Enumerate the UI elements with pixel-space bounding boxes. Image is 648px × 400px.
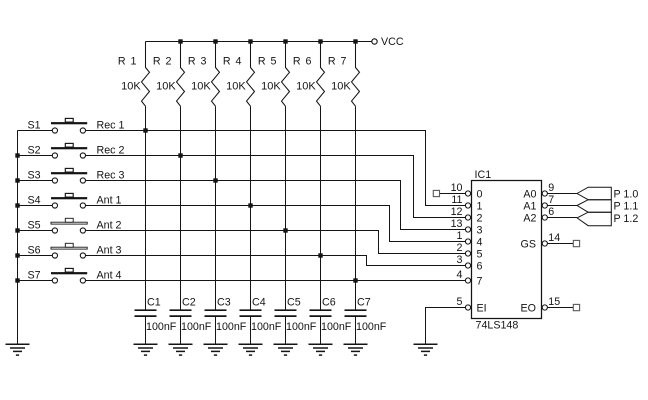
svg-text:6: 6 bbox=[548, 206, 554, 218]
capacitor C4 100nF bbox=[240, 297, 282, 334]
svg-text:2: 2 bbox=[457, 242, 463, 254]
ground under C6 bbox=[309, 344, 333, 355]
svg-text:10K: 10K bbox=[261, 81, 281, 93]
svg-text:100nF: 100nF bbox=[356, 321, 387, 333]
switch S2 (pushbutton) bbox=[28, 143, 88, 158]
wire bus to S4 bbox=[18, 205, 53, 207]
junction row S6 / column 6 bbox=[318, 253, 322, 257]
svg-text:C2: C2 bbox=[182, 297, 196, 309]
svg-text:14: 14 bbox=[548, 232, 560, 244]
junction top bus / column R5 bbox=[283, 39, 287, 43]
switch S3 (pushbutton) bbox=[28, 168, 88, 183]
IC1 output pin 6 (A2) bbox=[542, 206, 554, 220]
svg-text:3: 3 bbox=[477, 224, 483, 236]
svg-text:5: 5 bbox=[477, 248, 483, 260]
ground under C5 bbox=[274, 344, 298, 355]
junction left bus / switch S5 bbox=[15, 228, 19, 232]
wire bus to S3 bbox=[18, 180, 53, 182]
junction row S3 / column 3 bbox=[213, 178, 217, 182]
svg-text:R 2: R 2 bbox=[153, 56, 173, 68]
switch S1 (pushbutton) bbox=[28, 118, 88, 133]
svg-text:S7: S7 bbox=[28, 269, 41, 281]
resistor R6 10K bbox=[293, 42, 325, 107]
IC1 input pin 2 (input 5) bbox=[457, 242, 471, 256]
capacitor C6 100nF bbox=[310, 297, 352, 334]
wire VCC bus bbox=[146, 41, 372, 43]
IC1 output pin 14 (GS) bbox=[542, 232, 560, 246]
svg-text:EI: EI bbox=[477, 302, 487, 314]
port connector P 1.1 flag bbox=[577, 200, 611, 213]
wire C4 to ground bbox=[250, 317, 252, 344]
svg-text:100nF: 100nF bbox=[286, 321, 317, 333]
svg-text:2: 2 bbox=[477, 212, 483, 224]
wire EI to ground bbox=[426, 308, 466, 344]
svg-text:C5: C5 bbox=[287, 297, 301, 309]
junction top bus / column R6 bbox=[318, 39, 322, 43]
svg-text:C7: C7 bbox=[357, 297, 371, 309]
svg-text:C4: C4 bbox=[252, 297, 266, 309]
svg-text:Ant 4: Ant 4 bbox=[97, 270, 122, 282]
svg-text:A0: A0 bbox=[523, 188, 536, 200]
svg-text:6: 6 bbox=[477, 260, 483, 272]
svg-text:C3: C3 bbox=[217, 297, 231, 309]
wire column R3 to C3 bbox=[215, 106, 217, 309]
switch S6 (pushbutton) bbox=[28, 243, 88, 258]
junction row S5 / column 5 bbox=[283, 228, 287, 232]
IC1 input pin 11 (input 1) bbox=[451, 194, 470, 208]
wire column R6 to C6 bbox=[320, 106, 322, 309]
svg-text:1: 1 bbox=[477, 200, 483, 212]
svg-text:R 1: R 1 bbox=[118, 56, 138, 68]
IC IC1 74LS148 body bbox=[472, 169, 542, 332]
svg-text:S6: S6 bbox=[28, 244, 41, 256]
capacitor C1 100nF bbox=[135, 297, 177, 334]
wire EO to terminal bbox=[547, 307, 573, 309]
svg-text:5: 5 bbox=[457, 296, 463, 308]
junction left bus / switch S4 bbox=[15, 203, 19, 207]
svg-text:R 4: R 4 bbox=[223, 56, 243, 68]
resistor R3 10K bbox=[188, 42, 220, 107]
IC1 input pin 3 (input 6) bbox=[457, 254, 471, 268]
wire bus to S6 bbox=[18, 255, 53, 257]
svg-text:100nF: 100nF bbox=[321, 321, 352, 333]
svg-text:P 1.2: P 1.2 bbox=[614, 213, 639, 225]
VCC power symbol bbox=[372, 36, 404, 48]
wire S5 to IC input 5 bbox=[86, 231, 466, 254]
ground left bus bbox=[6, 344, 30, 355]
svg-text:100nF: 100nF bbox=[216, 321, 247, 333]
switch S7 (pushbutton) bbox=[28, 268, 88, 283]
svg-text:A1: A1 bbox=[523, 200, 536, 212]
IC1 input pin 12 (input 2) bbox=[451, 206, 471, 220]
svg-text:10K: 10K bbox=[331, 81, 351, 93]
junction top bus / column R2 bbox=[178, 39, 182, 43]
svg-text:R 3: R 3 bbox=[188, 56, 208, 68]
port connector P 1.2 flag bbox=[577, 212, 611, 226]
svg-text:S5: S5 bbox=[28, 219, 41, 231]
ground under C4 bbox=[239, 344, 263, 355]
terminal square GS bbox=[573, 240, 579, 246]
wire column R7 to C7 bbox=[355, 106, 357, 309]
svg-text:Rec 2: Rec 2 bbox=[97, 145, 125, 157]
wire C6 to ground bbox=[320, 317, 322, 344]
switch S5 (pushbutton) bbox=[28, 218, 88, 233]
svg-text:7: 7 bbox=[477, 275, 483, 287]
terminal square pin 10 bbox=[433, 190, 439, 196]
wire S6 to IC input 6 bbox=[86, 256, 466, 266]
IC1 output pin 15 (EO) bbox=[542, 296, 560, 310]
junction left bus / switch S3 bbox=[15, 178, 19, 182]
svg-text:Ant 1: Ant 1 bbox=[97, 195, 122, 207]
svg-text:4: 4 bbox=[477, 236, 483, 248]
terminal square EO bbox=[573, 304, 579, 310]
wire GS to terminal bbox=[547, 243, 573, 245]
svg-text:EO: EO bbox=[521, 302, 536, 314]
svg-text:10K: 10K bbox=[191, 81, 211, 93]
wire bus to S7 bbox=[18, 280, 53, 282]
svg-text:15: 15 bbox=[548, 296, 560, 308]
svg-text:VCC: VCC bbox=[381, 36, 404, 48]
wire A1 to port P 1.1 bbox=[547, 205, 577, 207]
capacitor C7 100nF bbox=[345, 297, 387, 334]
wire left ground bus bbox=[17, 131, 19, 344]
svg-text:C6: C6 bbox=[322, 297, 336, 309]
IC1 output pin 9 (A0) bbox=[542, 182, 554, 196]
wire S1 to IC input 1 bbox=[86, 131, 466, 206]
capacitor C2 100nF bbox=[170, 297, 212, 334]
svg-text:1: 1 bbox=[457, 230, 463, 242]
wire C3 to ground bbox=[215, 317, 217, 344]
svg-text:0: 0 bbox=[477, 188, 483, 200]
svg-text:P 1.0: P 1.0 bbox=[614, 188, 639, 200]
junction left bus / switch S2 bbox=[15, 153, 19, 157]
wire bus to S1 bbox=[18, 130, 53, 132]
svg-text:C1: C1 bbox=[147, 297, 161, 309]
wire C5 to ground bbox=[285, 317, 287, 344]
svg-text:A2: A2 bbox=[523, 212, 536, 224]
capacitor C5 100nF bbox=[275, 297, 317, 334]
junction row S1 / column 1 bbox=[143, 128, 147, 132]
wire column R5 to C5 bbox=[285, 106, 287, 309]
IC1 input pin 1 (input 4) bbox=[457, 230, 471, 244]
svg-text:Ant 3: Ant 3 bbox=[97, 245, 122, 257]
IC1 output pin 7 (A1) bbox=[542, 194, 554, 208]
capacitor C3 100nF bbox=[205, 297, 247, 334]
svg-text:100nF: 100nF bbox=[146, 321, 177, 333]
svg-text:100nF: 100nF bbox=[251, 321, 282, 333]
svg-text:GS: GS bbox=[521, 238, 536, 250]
svg-text:S4: S4 bbox=[28, 194, 41, 206]
wire bus to S2 bbox=[18, 155, 53, 157]
wire S3 to IC input 3 bbox=[86, 181, 466, 230]
wire C1 to ground bbox=[145, 317, 147, 344]
port connector P 1.0 flag bbox=[577, 187, 611, 200]
wire column R4 to C4 bbox=[250, 106, 252, 309]
resistor R5 10K bbox=[258, 42, 290, 107]
svg-text:10K: 10K bbox=[226, 81, 246, 93]
IC1 input pin 13 (input 3) bbox=[451, 218, 471, 232]
svg-text:11: 11 bbox=[451, 194, 462, 206]
svg-text:10K: 10K bbox=[296, 81, 316, 93]
wire S2 to IC input 2 bbox=[86, 156, 466, 218]
svg-text:100nF: 100nF bbox=[181, 321, 212, 333]
IC1 pin 5 (EI) bbox=[457, 296, 471, 310]
resistor R7 10K bbox=[328, 42, 360, 107]
wire S7 to IC input 7 bbox=[86, 280, 466, 282]
wire terminal to pin 10 bbox=[440, 193, 466, 195]
ground under C3 bbox=[204, 344, 228, 355]
junction top bus / column R7 bbox=[353, 39, 357, 43]
wire C7 to ground bbox=[355, 317, 357, 344]
junction row S4 / column 4 bbox=[248, 203, 252, 207]
svg-text:12: 12 bbox=[451, 206, 463, 218]
wire S4 to IC input 4 bbox=[86, 206, 466, 242]
switch S4 (pushbutton) bbox=[28, 193, 88, 208]
ground under C7 bbox=[344, 344, 368, 355]
wire C2 to ground bbox=[180, 317, 182, 344]
svg-text:R 7: R 7 bbox=[328, 56, 348, 68]
svg-text:S3: S3 bbox=[28, 169, 41, 181]
svg-text:10: 10 bbox=[451, 182, 463, 194]
ground EI bbox=[414, 344, 438, 355]
resistor R2 10K bbox=[153, 42, 185, 107]
svg-text:13: 13 bbox=[451, 218, 463, 230]
svg-text:4: 4 bbox=[457, 269, 463, 281]
junction left bus / switch S7 bbox=[15, 278, 19, 282]
svg-text:IC1: IC1 bbox=[475, 169, 492, 181]
ground under C1 bbox=[134, 344, 158, 355]
svg-text:R 6: R 6 bbox=[293, 56, 313, 68]
wire bus to S5 bbox=[18, 230, 53, 232]
svg-text:9: 9 bbox=[548, 182, 554, 194]
IC1 input pin 10 (input 0) bbox=[451, 182, 471, 196]
svg-text:10K: 10K bbox=[121, 81, 141, 93]
svg-text:S2: S2 bbox=[28, 144, 41, 156]
wire A0 to port P 1.0 bbox=[547, 193, 577, 195]
svg-text:Rec 1: Rec 1 bbox=[97, 120, 125, 132]
svg-text:10K: 10K bbox=[156, 81, 176, 93]
svg-text:Ant 2: Ant 2 bbox=[97, 220, 122, 232]
junction row S2 / column 2 bbox=[178, 153, 182, 157]
junction top bus / column R3 bbox=[213, 39, 217, 43]
wire column R2 to C2 bbox=[180, 106, 182, 309]
svg-text:74LS148: 74LS148 bbox=[476, 320, 519, 332]
junction left bus / switch S6 bbox=[15, 253, 19, 257]
IC1 input pin 4 (input 7) bbox=[457, 269, 471, 283]
resistor R1 10K bbox=[118, 42, 150, 107]
wire A2 to port P 1.2 bbox=[547, 217, 577, 219]
junction row S7 / column 7 bbox=[353, 278, 357, 282]
svg-text:R 5: R 5 bbox=[258, 56, 278, 68]
svg-text:S1: S1 bbox=[28, 119, 41, 131]
svg-text:7: 7 bbox=[548, 194, 554, 206]
svg-text:Rec 3: Rec 3 bbox=[97, 170, 125, 182]
ground under C2 bbox=[169, 344, 193, 355]
svg-text:P 1.1: P 1.1 bbox=[614, 200, 639, 212]
svg-text:3: 3 bbox=[457, 254, 463, 266]
wire column R1 to C1 bbox=[145, 106, 147, 309]
resistor R4 10K bbox=[223, 42, 255, 107]
junction top bus / column R4 bbox=[248, 39, 252, 43]
